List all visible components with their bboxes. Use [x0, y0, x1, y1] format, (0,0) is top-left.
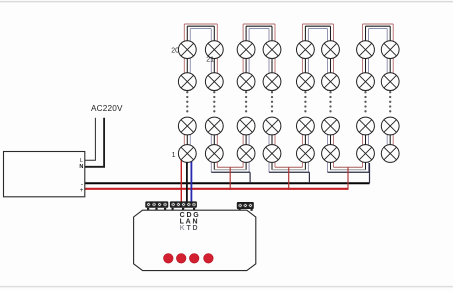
wire: dark GND tap from bottom U-link 2 down to black bus [308, 172, 310, 183]
wire: red V+ bus from power supply plus terminal to last red tap [85, 188, 349, 190]
wire: red V+ tap from bottom U-link 1 down to red bus [229, 167, 231, 190]
wire: top U-link between column 3 and column 4 (red/black/blue) [243, 24, 275, 29]
node: column 1 continuation dots (omitted lamps) [186, 91, 188, 112]
wire bundle: column 4 lower segment (red/black/blue string wires) [269, 117, 275, 172]
wire: top U-link between column 7 and column 8 (red/black/blue) [363, 24, 394, 29]
lamp: column 4 second pixel lamp [263, 73, 281, 91]
svg-text:L: L [80, 158, 83, 164]
wire: blue drop from lamp 1 to controller terminal [190, 160, 192, 203]
lamp: column 1 second pixel lamp [178, 73, 196, 91]
page top border line [0, 1, 453, 3]
wire bundle: column 2 upper segment (red/black/blue string wires) [211, 24, 217, 91]
lamp: column 2 second pixel lamp [205, 73, 223, 91]
node: column 2 continuation dots (omitted lamps) [213, 91, 215, 112]
wire: top U-link between column 1 and column 2 (red/black/blue) [184, 24, 217, 29]
lamp: column 2 third pixel lamp [205, 117, 223, 135]
svg-text:1: 1 [172, 152, 176, 159]
lamp: column 8 second pixel lamp [381, 73, 399, 91]
lamp: column 7 top pixel lamp [357, 41, 375, 59]
wire: red drop from lamp 1 to controller terminal [180, 160, 182, 203]
wire bundle: column 2 lower segment (red/black/blue string wires) [211, 117, 217, 172]
wire: AC live wire from L terminal up to AC220V [85, 118, 95, 161]
lamp: column 7 third pixel lamp [357, 117, 375, 135]
lamp: column 2 bottom pixel lamp [205, 145, 223, 163]
node: column 8 continuation dots (omitted lamps) [389, 91, 391, 112]
lamp: column 6 second pixel lamp [322, 73, 340, 91]
page bottom border line [0, 286, 453, 287]
lamp: column 4 third pixel lamp [263, 117, 281, 135]
power supply PSU box [4, 152, 85, 197]
wire bundle: column 1 upper segment (red/black/blue string wires) [184, 24, 190, 91]
svg-text:+: + [80, 187, 84, 194]
wire bundle: column 6 upper segment (red/black/blue string wires) [328, 24, 334, 91]
lamp: column 3 third pixel lamp [237, 117, 255, 135]
svg-text:AC220V: AC220V [91, 104, 123, 113]
wire bundle: column 1 lower segment (red/black/blue string wires) [184, 117, 190, 164]
lamp: column 5 third pixel lamp [297, 117, 315, 135]
lamp: column 6 bottom pixel lamp [322, 145, 340, 163]
wire bundle: column 4 upper segment (red/black/blue string wires) [269, 24, 275, 91]
wire: dark GND tap from bottom U-link 3 down to black bus [369, 163, 371, 183]
indicator LED 4 (red) on controller [204, 253, 214, 263]
wire bundle: column 3 upper segment (red/black/blue string wires) [243, 24, 249, 91]
wire: red V+ tap from bottom U-link 2 down to red bus [288, 167, 290, 190]
lamp: column 3 bottom pixel lamp [237, 145, 255, 163]
node: column 4 continuation dots (omitted lamps) [271, 91, 273, 112]
lamp: column 7 second pixel lamp [357, 73, 375, 91]
wire bundle: column 7 lower segment (red/black/blue string wires) [363, 117, 369, 172]
wire: AC neutral wire from N terminal up to AC220V [85, 118, 104, 167]
wire: bottom U-link between column 4 and column 5 (red/gray/navy) [269, 167, 309, 172]
node: column 6 continuation dots (omitted lamps) [329, 91, 331, 112]
wire bundle: column 3 lower segment (red/black/blue string wires) [243, 117, 249, 172]
lamp: column 2 top pixel lamp [205, 41, 223, 59]
lamp: column 1 bottom pixel lamp [178, 145, 196, 163]
lamp: column 7 bottom pixel lamp [357, 145, 375, 163]
svg-text:21: 21 [206, 57, 214, 64]
wire bundle: column 5 lower segment (red/black/blue string wires) [302, 117, 308, 172]
wire bundle: column 6 lower segment (red/black/blue string wires) [328, 117, 334, 172]
wire bundle: column 8 lower segment (red/black/blue string wires) [387, 117, 393, 154]
terminal strip B (controller output terminals, wires enter here) [170, 201, 197, 210]
lamp: column 8 bottom pixel lamp [381, 145, 399, 163]
wire: red V+ tap from bottom U-link 3 down to red bus [347, 167, 349, 190]
lamp: column 6 third pixel lamp [322, 117, 340, 135]
indicator LED 1 (red) on controller [164, 253, 174, 263]
wire bundle: column 7 upper segment (red/black/blue string wires) [363, 24, 369, 91]
wire bundle: column 8 upper segment (red/black/blue string wires) [387, 24, 393, 91]
indicator LED 3 (red) on controller [189, 253, 199, 263]
lamp: column 6 top pixel lamp [322, 41, 340, 59]
svg-text:N: N [79, 164, 83, 170]
lamp: column 1 third pixel lamp [178, 117, 196, 135]
lamp: column 3 top pixel lamp [237, 41, 255, 59]
controller U1 box (LED pixel controller) [134, 210, 256, 270]
node: column 3 continuation dots (omitted lamps) [245, 91, 247, 112]
terminal strip C (controller right terminals) [237, 202, 254, 211]
lamp: column 8 top pixel lamp [381, 41, 399, 59]
lamp: column 8 third pixel lamp [381, 117, 399, 135]
indicator LED 2 (red) on controller [176, 253, 186, 263]
svg-text:KTD: KTD [180, 225, 200, 232]
lamp: column 5 top pixel lamp [297, 41, 315, 59]
wire: black GND bus from power supply minus terminal to last string drop [85, 182, 370, 184]
node: column 5 continuation dots (omitted lamps) [304, 91, 306, 112]
lamp: column 4 bottom pixel lamp [263, 145, 281, 163]
lamp: column 1 top pixel lamp [178, 41, 196, 59]
lamp: column 3 second pixel lamp [237, 73, 255, 91]
lamp: column 4 top pixel lamp [263, 41, 281, 59]
wire: bottom U-link between column 6 and column 7 (red/gray/navy) [328, 167, 370, 172]
terminal strip A (controller left power terminals) [145, 201, 168, 210]
wire: dark GND tap from bottom U-link 1 down to black bus [249, 172, 251, 183]
wire: bottom U-link between column 2 and column 3 (red/gray/navy) [211, 167, 250, 172]
lamp: column 5 second pixel lamp [297, 73, 315, 91]
wire bundle: column 5 upper segment (red/black/blue string wires) [302, 24, 308, 91]
lamp: column 5 bottom pixel lamp [297, 145, 315, 163]
wire: top U-link between column 5 and column 6 (red/black/blue) [302, 24, 333, 29]
wire: black drop from lamp 1 to controller terminal [186, 162, 188, 203]
svg-text:20: 20 [171, 48, 179, 55]
node: column 7 continuation dots (omitted lamps) [364, 91, 366, 112]
